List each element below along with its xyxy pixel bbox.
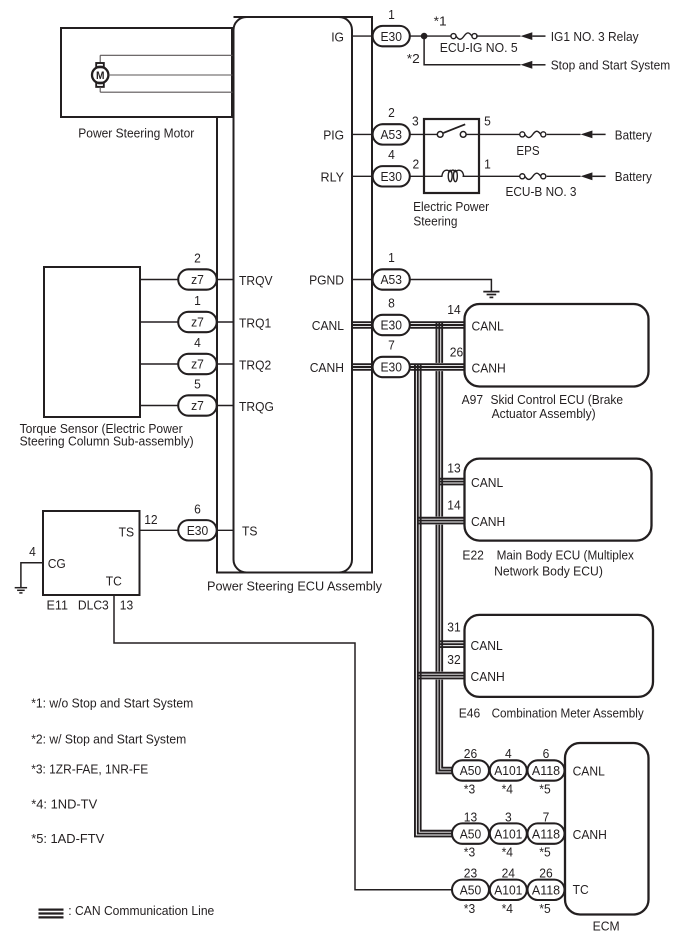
arrow from Battery (EPS) xyxy=(581,131,606,139)
connector z7 (TRQG) xyxy=(178,395,217,415)
svg-text:E30: E30 xyxy=(187,523,209,538)
svg-text:*2: *2 xyxy=(407,51,420,66)
E22 label CANH xyxy=(471,514,505,529)
pin 13 label (CANH A50) xyxy=(464,809,477,824)
svg-text:*4: *4 xyxy=(502,845,513,860)
wire *2 branch xyxy=(424,36,520,65)
svg-text:*5: *5 xyxy=(539,782,550,797)
wire motor bottom xyxy=(100,91,233,93)
pin 5 label (relay) xyxy=(484,114,491,129)
relay box Electric Power Steering xyxy=(424,119,479,193)
ECU pin label TRQ1 xyxy=(239,315,271,330)
label *3 (CANL A50) xyxy=(464,782,475,797)
svg-text:14: 14 xyxy=(447,302,460,317)
connector E30 (IG pin 1) xyxy=(373,26,410,46)
pin 6 label (CANL A118) xyxy=(543,746,550,761)
connector A118 (CANH pin 7) xyxy=(528,823,565,843)
svg-text:26: 26 xyxy=(464,746,477,761)
fuse ECU-B NO. 3 xyxy=(520,173,546,179)
svg-text:5: 5 xyxy=(484,114,491,129)
svg-text:A50: A50 xyxy=(460,826,482,841)
svg-text:*4: *4 xyxy=(502,782,513,797)
svg-text:*2: w/ Stop and Start System: *2: w/ Stop and Start System xyxy=(31,732,186,747)
svg-text:14: 14 xyxy=(447,498,460,513)
svg-text:1: 1 xyxy=(194,293,201,308)
svg-text:A53: A53 xyxy=(380,272,402,287)
wire motor middle xyxy=(109,74,234,76)
relay switch contacts xyxy=(437,124,466,137)
connector E30 (CANH pin 7) xyxy=(373,357,410,377)
svg-text:Power Steering ECU Assembly: Power Steering ECU Assembly xyxy=(207,579,382,594)
CAN wire E30 to A97 CANH xyxy=(410,363,464,371)
svg-text:Battery: Battery xyxy=(615,169,652,184)
connector E30 (CANL pin 8) xyxy=(373,315,410,335)
connector z7 (TRQ1) xyxy=(178,312,217,332)
svg-text:1: 1 xyxy=(388,7,395,22)
svg-text:*4: *4 xyxy=(502,901,513,916)
wire A53 to ground xyxy=(410,280,491,292)
wire ECU PGND to connector xyxy=(352,279,373,281)
CAN wire trunk to E46 CANL xyxy=(439,641,464,647)
svg-text:TRQ1: TRQ1 xyxy=(239,315,271,330)
label E11 DLC3 xyxy=(47,597,109,612)
wire CG to ground xyxy=(21,563,43,587)
connector E30 (RLY pin 4) xyxy=(373,166,410,186)
svg-text:E30: E30 xyxy=(380,360,402,375)
pin 4 label (RLY) xyxy=(388,147,395,162)
A97 label CANH xyxy=(472,360,506,375)
CAN trunk CANH vertical xyxy=(415,364,453,836)
svg-text:13: 13 xyxy=(120,597,133,612)
svg-text:32: 32 xyxy=(447,652,460,667)
svg-text:CG: CG xyxy=(48,556,66,571)
svg-text:3: 3 xyxy=(412,114,419,129)
svg-text:PIG: PIG xyxy=(323,128,344,143)
svg-text:31: 31 xyxy=(447,619,460,634)
wire coil to fuse xyxy=(463,175,521,177)
pin 8 label (CANL) xyxy=(388,296,395,311)
pin 13 label (DLC3 TC) xyxy=(120,597,133,612)
wire ECU-B fuse to arrow xyxy=(547,175,581,177)
pin 7 label (CANH) xyxy=(388,338,395,353)
label *5 (CANL A118) xyxy=(539,782,550,797)
pin 1 label (TRQ1) xyxy=(194,293,201,308)
wire motor top xyxy=(100,54,233,56)
wire z7 to ECU (TRQV) xyxy=(217,279,234,281)
torque sensor box xyxy=(44,267,140,417)
pin 6 label (TS) xyxy=(194,502,201,517)
svg-text:A53: A53 xyxy=(380,127,402,142)
pin 13 label (E22 CANL) xyxy=(447,461,460,476)
label E46 Combination Meter Assembly xyxy=(459,705,644,720)
svg-text:2: 2 xyxy=(388,105,395,120)
label *3 (CANH A50) xyxy=(464,845,475,860)
label IG1 NO. 3 Relay xyxy=(551,29,639,44)
label Power Steering Motor xyxy=(78,125,195,140)
svg-text:*3: *3 xyxy=(464,901,475,916)
pin 23 label (TC A50) xyxy=(464,866,477,881)
pin 3 label (CANH A101) xyxy=(505,809,512,824)
wire z7 to ECU (TRQ1) xyxy=(217,321,234,323)
svg-text:12: 12 xyxy=(144,512,157,527)
svg-text:3: 3 xyxy=(505,809,512,824)
svg-text:*3: *3 xyxy=(464,782,475,797)
pin 14 label (E22 CANH) xyxy=(447,498,460,513)
label Battery (ECU-B) xyxy=(615,169,652,184)
label *1 xyxy=(434,14,447,29)
ECU pin label PGND xyxy=(309,273,344,288)
svg-text:A50: A50 xyxy=(460,883,482,898)
svg-text:A101: A101 xyxy=(494,763,522,778)
svg-text:CANH: CANH xyxy=(471,669,505,684)
ECM label CANH xyxy=(573,827,607,842)
svg-text:Actuator Assembly): Actuator Assembly) xyxy=(492,406,596,421)
label E22 Main Body ECU xyxy=(462,548,634,579)
pin 12 label (DLC3 TS) xyxy=(144,512,157,527)
label ECU-IG NO. 5 xyxy=(440,40,518,55)
DLC3 label TC xyxy=(106,574,122,589)
connector A101 (TC pin 24) xyxy=(490,880,527,900)
pin 24 label (TC A101) xyxy=(502,866,515,881)
svg-text:6: 6 xyxy=(543,746,550,761)
connector A50 (CANL pin 26) xyxy=(452,760,489,780)
svg-text:: CAN Communication Line: : CAN Communication Line xyxy=(68,903,214,918)
label ECM xyxy=(593,919,620,934)
node junction IG xyxy=(421,33,428,40)
pin 1 label (PGND) xyxy=(388,250,395,265)
svg-text:A118: A118 xyxy=(532,763,560,778)
svg-text:TS: TS xyxy=(119,524,135,539)
svg-text:CANL: CANL xyxy=(472,318,504,333)
wire switch to fuse xyxy=(466,133,520,135)
svg-text:E46: E46 xyxy=(459,705,481,720)
DLC3 box xyxy=(43,511,140,595)
connector z7 (TRQV) xyxy=(178,269,217,289)
svg-text:E11: E11 xyxy=(47,597,69,612)
svg-text:A101: A101 xyxy=(494,883,522,898)
label *5 (TC A118) xyxy=(539,901,550,916)
svg-text:6: 6 xyxy=(194,502,201,517)
power steering motor box xyxy=(61,28,232,117)
pin 14 label (A97 CANL) xyxy=(447,302,460,317)
wire E30 to ECU TS xyxy=(217,529,234,531)
svg-text:CANH: CANH xyxy=(472,360,506,375)
pin 4 label (CG) xyxy=(29,544,36,559)
wire torque sensor to z7 (TRQG) xyxy=(140,405,178,407)
connector A101 (CANH pin 3) xyxy=(490,823,527,843)
label *4 (CANH A101) xyxy=(502,845,513,860)
pin 26 label (A97 CANH) xyxy=(450,344,463,359)
label *5 (CANH A118) xyxy=(539,845,550,860)
label *4 (TC A101) xyxy=(502,901,513,916)
wire A53 to relay box xyxy=(410,133,437,135)
svg-text:24: 24 xyxy=(502,866,515,881)
svg-text:M: M xyxy=(96,70,105,82)
relay coil xyxy=(442,170,464,182)
label *3 (TC A50) xyxy=(464,901,475,916)
A97 label CANL xyxy=(472,318,504,333)
svg-text:EPS: EPS xyxy=(516,143,539,158)
svg-text:13: 13 xyxy=(447,461,460,476)
svg-text:CANL: CANL xyxy=(471,475,503,490)
CAN wire ECU CANH to connector xyxy=(352,364,373,370)
svg-text:*5: *5 xyxy=(539,901,550,916)
CAN wire trunk to E46 CANH xyxy=(418,672,465,680)
pin 3 label (relay) xyxy=(412,114,419,129)
svg-text:1: 1 xyxy=(388,250,395,265)
svg-text:CANL: CANL xyxy=(471,638,503,653)
footnote *3 xyxy=(31,762,148,777)
svg-text:4: 4 xyxy=(505,746,512,761)
connector A118 (CANL pin 6) xyxy=(528,760,565,780)
wire EPS fuse to arrow xyxy=(547,133,581,135)
E46 label CANH xyxy=(471,669,505,684)
footnote *2 xyxy=(31,732,186,747)
CAN wire trunk to E22 CANL xyxy=(439,479,464,485)
pin 4 label (TRQ2) xyxy=(194,335,201,350)
svg-text:Battery: Battery xyxy=(615,127,652,142)
E22 Main Body ECU box xyxy=(465,459,652,541)
svg-text:4: 4 xyxy=(388,147,395,162)
svg-text:4: 4 xyxy=(194,335,201,350)
svg-text:A50: A50 xyxy=(460,763,482,778)
svg-text:IG1 NO. 3 Relay: IG1 NO. 3 Relay xyxy=(551,29,639,44)
arrow from Battery (ECU-B) xyxy=(581,172,606,180)
DLC3 label CG xyxy=(48,556,66,571)
pin 26 label (TC A118) xyxy=(539,866,552,881)
wire z7 to ECU (TRQ2) xyxy=(217,363,234,365)
pin 2 label (TRQV) xyxy=(194,251,201,266)
ECM label CANL xyxy=(573,764,605,779)
connector A53 (PIG pin 2) xyxy=(373,124,410,144)
wire z7 to ECU (TRQG) xyxy=(217,405,234,407)
label Battery (EPS) xyxy=(615,127,652,142)
ECU pin label IG xyxy=(331,29,344,44)
label Power Steering ECU Assembly xyxy=(207,579,382,594)
wire torque sensor to z7 (TRQ1) xyxy=(140,321,178,323)
power steering ECU assembly inner box xyxy=(234,17,353,573)
svg-text:z7: z7 xyxy=(191,398,204,413)
ECM box xyxy=(565,743,649,915)
svg-text:7: 7 xyxy=(543,809,550,824)
svg-text:PGND: PGND xyxy=(309,273,344,288)
pin 26 label (CANL A50) xyxy=(464,746,477,761)
ground (CG) xyxy=(15,588,27,593)
svg-text:RLY: RLY xyxy=(321,170,345,185)
motor M1 symbol xyxy=(92,55,108,92)
ECU pin label TS xyxy=(242,524,258,539)
fuse EPS xyxy=(520,131,546,137)
svg-text:E30: E30 xyxy=(380,29,402,44)
ECU pin label TRQ2 xyxy=(239,357,271,372)
label Torque Sensor xyxy=(20,421,194,449)
pin 4 label (CANL A101) xyxy=(505,746,512,761)
svg-text:CANL: CANL xyxy=(312,318,344,333)
wire DLC3 TS to E30 xyxy=(140,529,180,531)
A97 Skid Control ECU box xyxy=(465,304,649,387)
label Stop and Start System xyxy=(551,58,671,73)
label *4 (CANL A101) xyxy=(502,782,513,797)
svg-text:DLC3: DLC3 xyxy=(78,597,109,612)
svg-text:Steering: Steering xyxy=(413,214,457,229)
ECU pin label TRQG xyxy=(239,399,274,414)
svg-text:ECU-IG NO. 5: ECU-IG NO. 5 xyxy=(440,40,518,55)
svg-text:TS: TS xyxy=(242,524,258,539)
svg-text:4: 4 xyxy=(29,544,36,559)
label A97 Skid Control ECU xyxy=(462,392,623,421)
svg-text:IG: IG xyxy=(331,29,344,44)
legend CAN line symbol xyxy=(39,910,64,918)
wire ECU RLY to connector xyxy=(352,175,373,177)
E46 label CANL xyxy=(471,638,503,653)
svg-text:*5: 1AD-FTV: *5: 1AD-FTV xyxy=(31,831,104,846)
label EPS xyxy=(516,143,539,158)
svg-text:Stop and Start System: Stop and Start System xyxy=(551,58,671,73)
pin 31 label (E46 CANL) xyxy=(447,619,460,634)
DLC3 label TS xyxy=(119,524,135,539)
svg-text:E22: E22 xyxy=(462,548,484,563)
CAN trunk CANL vertical xyxy=(436,322,452,773)
svg-text:5: 5 xyxy=(194,377,201,392)
svg-text:Power Steering Motor: Power Steering Motor xyxy=(78,125,195,140)
wire E30 to junction xyxy=(410,35,451,37)
svg-text:CANH: CANH xyxy=(573,827,607,842)
svg-text:E30: E30 xyxy=(380,169,402,184)
wire torque sensor to z7 (TRQ2) xyxy=(140,363,178,365)
connector A53 (PGND pin 1) xyxy=(373,269,410,289)
svg-text:Main Body ECU (Multiplex: Main Body ECU (Multiplex xyxy=(497,548,635,563)
connector A118 (TC pin 26) xyxy=(528,880,565,900)
svg-text:z7: z7 xyxy=(191,315,204,330)
fuse ECU-IG NO. 5 xyxy=(451,33,477,39)
svg-text:CANH: CANH xyxy=(471,514,505,529)
svg-text:CANH: CANH xyxy=(310,360,344,375)
svg-text:A97: A97 xyxy=(462,392,484,407)
footnote *1 xyxy=(31,696,193,711)
svg-text:13: 13 xyxy=(464,809,477,824)
svg-text:TRQ2: TRQ2 xyxy=(239,357,271,372)
ECU pin label TRQV xyxy=(239,273,273,288)
ECU pin label RLY xyxy=(321,170,345,185)
svg-text:Electric Power: Electric Power xyxy=(413,199,490,214)
svg-text:*1: w/o Stop and Start System: *1: w/o Stop and Start System xyxy=(31,696,193,711)
svg-text:z7: z7 xyxy=(191,272,204,287)
connector E30 (TS pin 6) xyxy=(178,520,217,540)
connector A50 (CANH pin 13) xyxy=(452,823,489,843)
label Electric Power Steering xyxy=(413,199,490,229)
pin 2 label (PIG) xyxy=(388,105,395,120)
pin 5 label (TRQG) xyxy=(194,377,201,392)
pin 2 label (relay coil) xyxy=(412,157,419,172)
svg-text:*3: *3 xyxy=(464,845,475,860)
svg-text:ECM: ECM xyxy=(593,919,620,934)
svg-text:2: 2 xyxy=(194,251,201,266)
svg-text:26: 26 xyxy=(450,344,463,359)
pin 1 label (IG) xyxy=(388,7,395,22)
svg-text:Steering Column Sub-assembly): Steering Column Sub-assembly) xyxy=(20,434,194,449)
legend label CAN Communication Line xyxy=(68,903,214,918)
svg-text:Skid Control ECU (Brake: Skid Control ECU (Brake xyxy=(491,392,624,407)
svg-text:*1: *1 xyxy=(434,14,447,29)
svg-text:A118: A118 xyxy=(532,826,560,841)
svg-text:Combination Meter Assembly: Combination Meter Assembly xyxy=(492,705,645,720)
footnote *5 xyxy=(31,831,104,846)
wire ECU IG to connector xyxy=(352,35,373,37)
wire fuse to arrow xyxy=(476,35,520,37)
svg-text:7: 7 xyxy=(388,338,395,353)
svg-text:z7: z7 xyxy=(191,357,204,372)
svg-text:Network Body ECU): Network Body ECU) xyxy=(494,564,603,579)
ECU pin label CANL xyxy=(312,318,344,333)
svg-text:CANL: CANL xyxy=(573,764,605,779)
wire DLC3 TC to ECM TC xyxy=(114,595,452,890)
svg-text:TC: TC xyxy=(106,574,122,589)
ground (PGND) xyxy=(483,292,499,298)
label ECU-B NO. 3 xyxy=(506,184,577,199)
svg-text:1: 1 xyxy=(484,157,491,172)
pin 1 label (relay coil) xyxy=(484,157,491,172)
svg-text:TRQG: TRQG xyxy=(239,399,274,414)
arrow from Stop and Start System xyxy=(521,61,546,69)
E22 label CANL xyxy=(471,475,503,490)
svg-text:TRQV: TRQV xyxy=(239,273,273,288)
svg-text:E30: E30 xyxy=(380,318,402,333)
wire E30 to relay box xyxy=(410,175,442,177)
svg-text:A118: A118 xyxy=(532,883,560,898)
pin 32 label (E46 CANH) xyxy=(447,652,460,667)
E46 Combination Meter box xyxy=(465,615,654,697)
ECU pin label PIG xyxy=(323,128,344,143)
connector z7 (TRQ2) xyxy=(178,354,217,374)
label *2 xyxy=(407,51,420,66)
CAN wire E30 to A97 CANL xyxy=(410,322,464,328)
svg-text:8: 8 xyxy=(388,296,395,311)
connector A50 (TC pin 23) xyxy=(452,880,489,900)
ECU pin label CANH xyxy=(310,360,344,375)
svg-text:TC: TC xyxy=(573,882,589,897)
svg-text:26: 26 xyxy=(539,866,552,881)
arrow from IG1 NO. 3 Relay xyxy=(521,32,546,40)
ECM label TC xyxy=(573,882,589,897)
svg-text:23: 23 xyxy=(464,866,477,881)
wire torque sensor to z7 (TRQV) xyxy=(140,279,178,281)
connector A101 (CANL pin 4) xyxy=(490,760,527,780)
svg-text:*3: 1ZR-FAE, 1NR-FE: *3: 1ZR-FAE, 1NR-FE xyxy=(31,762,148,777)
power steering ECU assembly outer outline xyxy=(217,17,372,573)
wire ECU PIG to connector xyxy=(352,133,373,135)
svg-text:*4: 1ND-TV: *4: 1ND-TV xyxy=(31,797,97,812)
footnote *4 xyxy=(31,797,97,812)
svg-text:A101: A101 xyxy=(494,826,522,841)
svg-text:ECU-B NO. 3: ECU-B NO. 3 xyxy=(506,184,577,199)
svg-text:*5: *5 xyxy=(539,845,550,860)
pin 7 label (CANH A118) xyxy=(543,809,550,824)
svg-text:2: 2 xyxy=(412,157,419,172)
CAN wire ECU CANL to connector xyxy=(352,322,373,328)
CAN wire trunk to E22 CANH xyxy=(418,517,465,525)
